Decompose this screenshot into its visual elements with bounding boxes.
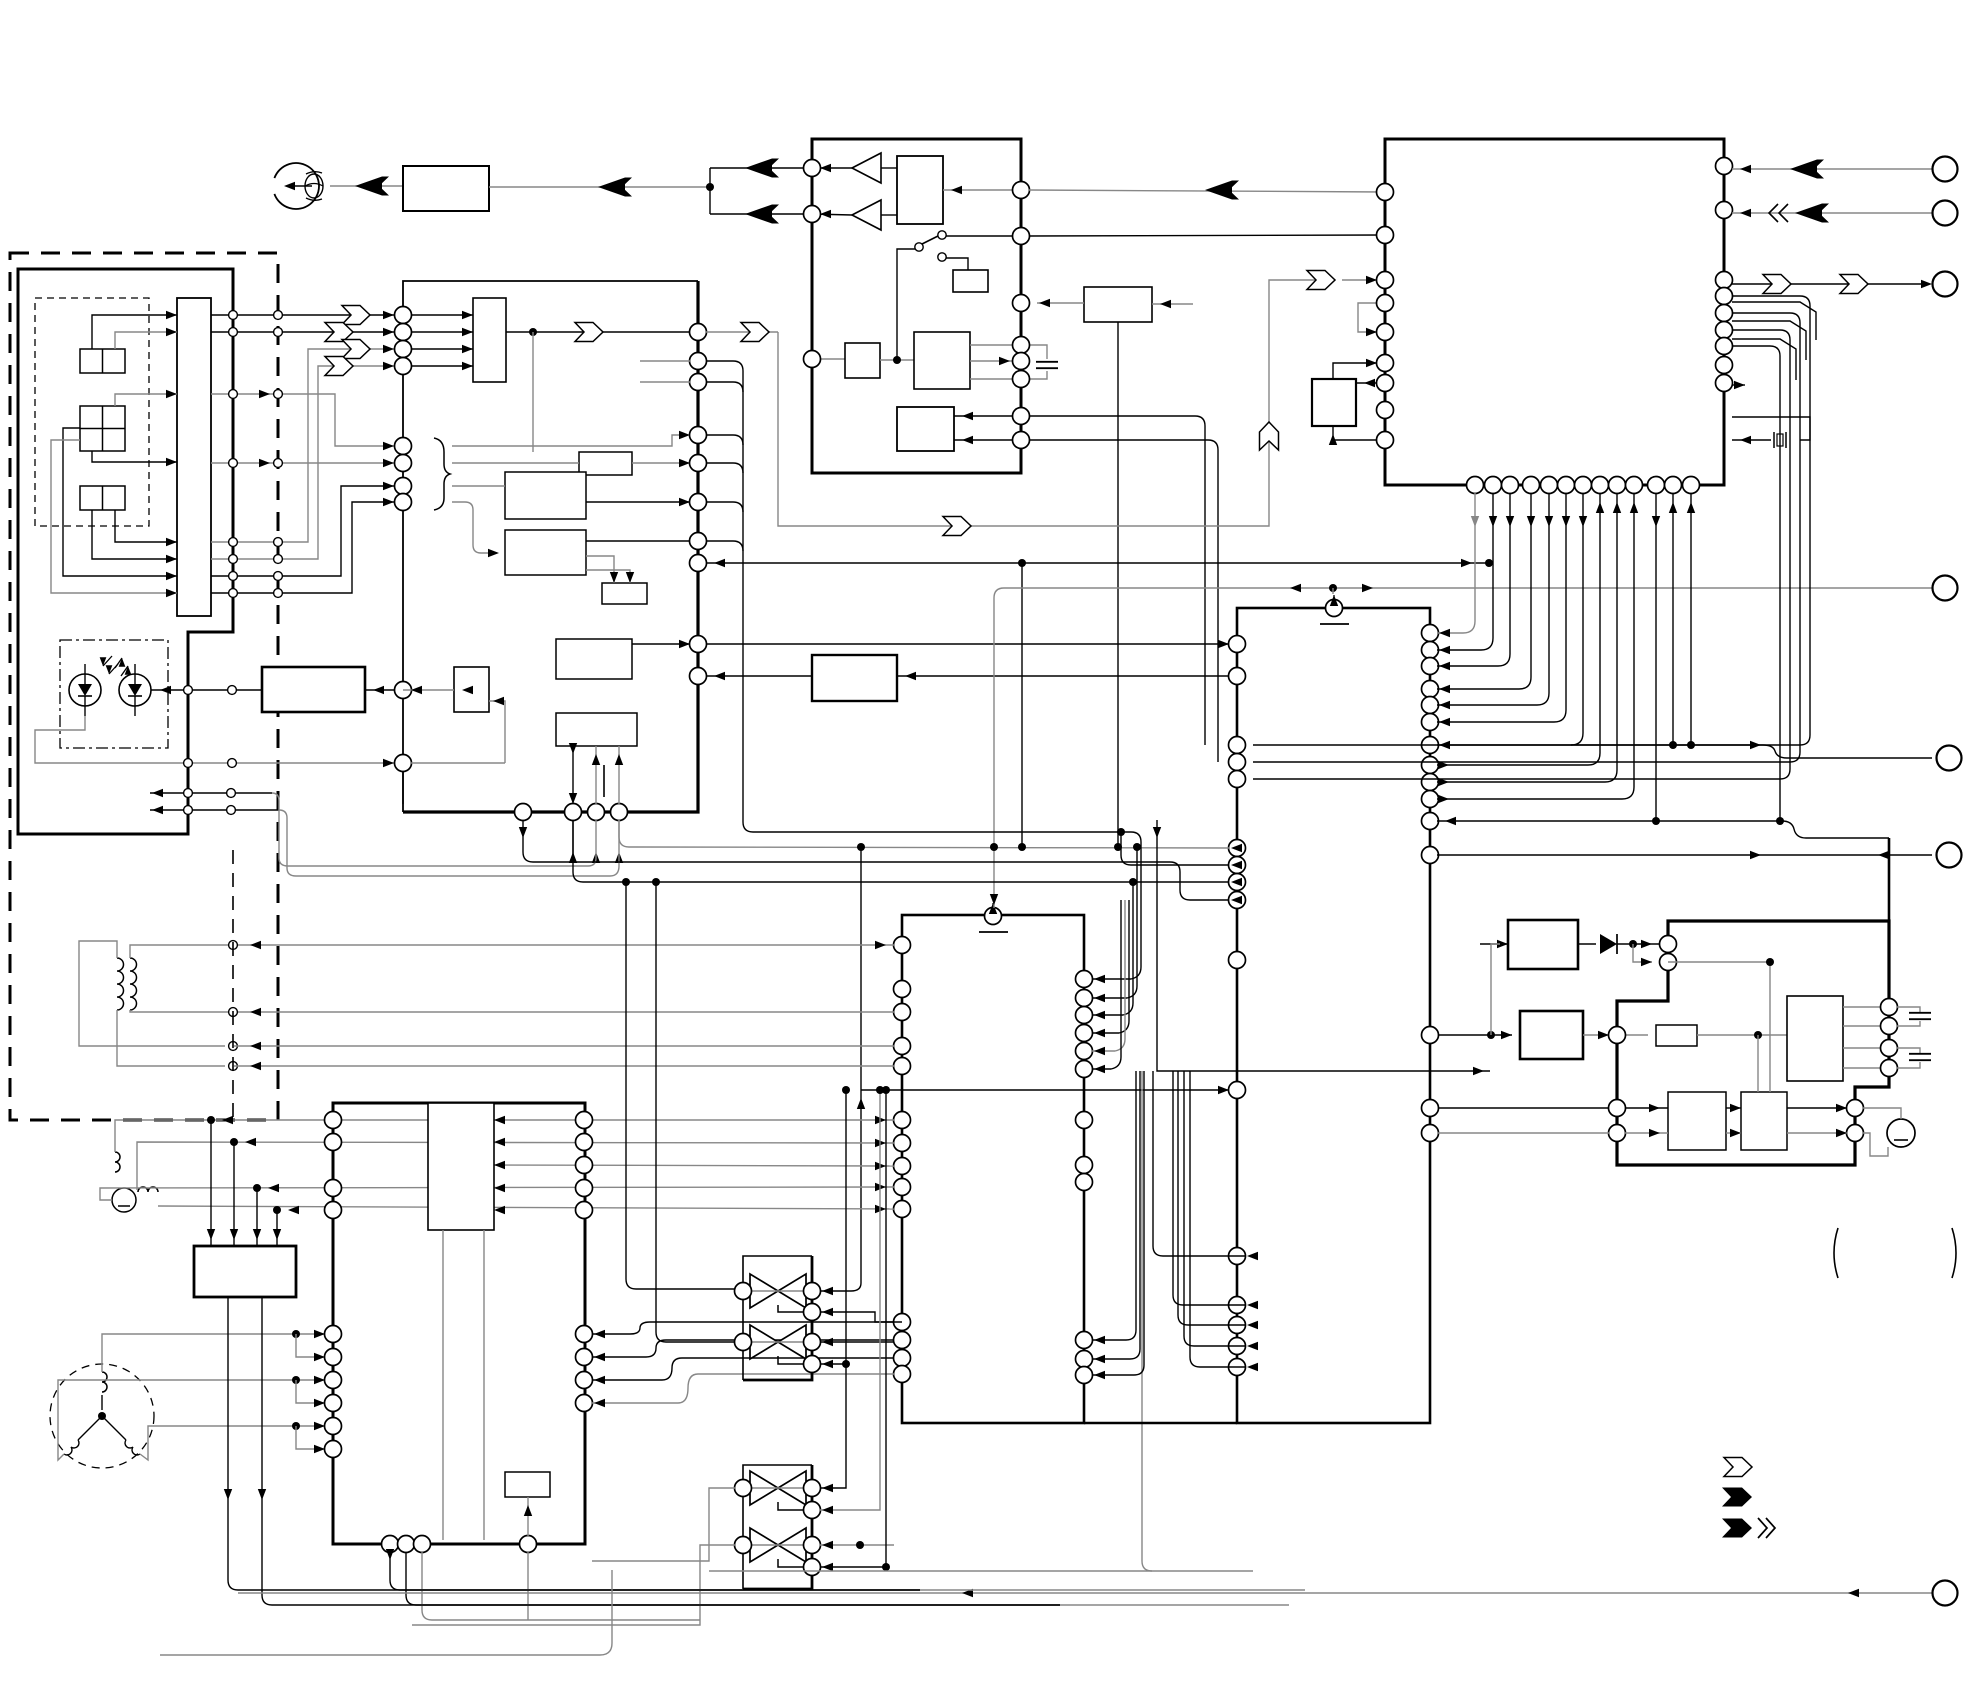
wire u2f bottom <box>1117 322 1119 847</box>
wire U2c to U2d <box>880 359 914 361</box>
wire t1 to b5 c <box>234 1045 894 1047</box>
wire b4 stub382 <box>640 381 690 383</box>
T1 wire b <box>117 1010 225 1066</box>
wire b4top in2 <box>411 331 473 333</box>
motor/capstan symbol top-left <box>274 163 319 209</box>
wire b5r 998 <box>1092 847 1137 998</box>
box U2c <box>845 343 880 378</box>
B4 left pins <box>395 307 412 324</box>
wire b5 lr1 <box>1092 1071 1140 1359</box>
wire b5b6 bottom link <box>1084 1422 1237 1425</box>
wire U1 busy out <box>1732 283 1926 285</box>
switch SW1 <box>915 243 923 251</box>
loading motor choke <box>115 1152 120 1172</box>
wire b7 bot1 <box>390 1552 920 1590</box>
wire motor to box B1 <box>330 185 403 187</box>
wire tr2 in3 <box>820 1544 894 1546</box>
T1 wire c <box>130 945 242 958</box>
wire r2 out <box>1583 1034 1648 1036</box>
IC B6 (motor driver) <box>1237 608 1430 1423</box>
wire b7 bot3 <box>422 1552 700 1620</box>
B7 bottom pins <box>382 1536 399 1553</box>
triac A <box>750 1274 778 1308</box>
transformer T1 secondary <box>130 958 137 1010</box>
b8 in arrows <box>210 1120 212 1246</box>
wire b7a <box>527 1497 529 1536</box>
outline chevron busy2 <box>1840 275 1868 294</box>
buffer amp A2 <box>852 200 881 230</box>
triac enclosure <box>743 1465 812 1589</box>
wire bottom 1655 <box>412 1570 612 1655</box>
black chevron U1-U2 <box>1205 181 1232 200</box>
wire L3 to terminal <box>1437 854 1932 856</box>
box B7i1 <box>428 1103 494 1230</box>
B6 top pin <box>1326 600 1343 617</box>
B7 right pins <box>576 1112 593 1129</box>
wire A1 input <box>881 167 897 169</box>
triac pins R <box>804 1283 821 1300</box>
wire U1a bottom <box>1333 426 1385 440</box>
wire b4top drop <box>532 332 534 452</box>
wire rail 1188 <box>100 1187 894 1200</box>
triac pins L <box>735 1480 752 1497</box>
wire U1 to U2 (data) <box>1029 190 1385 192</box>
wire LD1 return <box>35 716 85 763</box>
wire rail 1210 <box>158 1206 894 1209</box>
wire b4 bottom stub <box>402 771 404 804</box>
chevron sens2 <box>943 517 971 536</box>
arrow bp 1475 <box>1471 516 1479 527</box>
wire b4 hook bus <box>706 361 753 832</box>
wire b8 out2 <box>262 1297 1060 1605</box>
wire b7a bot <box>527 1552 529 1620</box>
wire b5b7 2 <box>592 1340 894 1357</box>
wire 1090 branch <box>860 847 862 1283</box>
wire rfout 576 <box>211 486 394 576</box>
wire 1071 line <box>1157 820 1490 1071</box>
arrow bp 1549 <box>1545 516 1553 527</box>
box B4f (focus) <box>454 667 489 712</box>
wire bp 1691 <box>1690 493 1692 745</box>
wire 900 line <box>523 820 1229 900</box>
wire b5 lr0 <box>1092 1071 1136 1340</box>
junction node <box>706 183 714 191</box>
terminal CN1-3 <box>1933 272 1958 297</box>
inner dashed box (photodiode array) <box>35 298 149 526</box>
wire b5b7 4 <box>592 1374 894 1403</box>
chevron rf1 <box>342 306 370 325</box>
wire rail 1120 <box>115 1120 894 1152</box>
box B4top (RF eq) <box>473 298 506 382</box>
wire b5 lr2 <box>1092 1071 1144 1375</box>
box B4g <box>602 583 647 604</box>
wire b6 ll2 <box>1178 1071 1245 1325</box>
wire A2 to pin <box>812 214 852 215</box>
wire b6 ll4 <box>1190 1071 1245 1367</box>
box B4h (LPF) <box>812 655 897 701</box>
spindle motor M3 <box>50 1364 154 1468</box>
wire 865 stub <box>1121 832 1229 865</box>
wire rfout 559 <box>211 366 394 559</box>
wire rfout 593 <box>211 502 394 593</box>
wire L1 to terminal <box>1571 744 1763 746</box>
wire riser 1142 <box>1142 1071 1152 1571</box>
wire r3 vert2 <box>1668 962 1770 1092</box>
wire U1 to terminal 2 <box>1732 212 1932 214</box>
triac A gate <box>778 1502 804 1510</box>
wire sens chevron into U1 <box>1342 279 1385 281</box>
buffer amp A1 <box>852 153 881 183</box>
wire rfout 463 <box>211 462 394 464</box>
IC B5 (driver) <box>902 915 1084 1423</box>
box R3c <box>1741 1092 1787 1150</box>
wire busout2 <box>1437 493 1634 799</box>
triac A <box>750 1471 778 1505</box>
cap right 1 <box>1897 1007 1920 1012</box>
wire gray left drop <box>152 1490 160 1655</box>
wire b5r 1051 <box>1092 900 1125 1051</box>
black chevron upper <box>745 159 772 178</box>
wire tr1 in2 <box>820 1312 902 1322</box>
wire r3f-r3c 2 <box>1726 1132 1741 1134</box>
light arrows <box>100 657 107 666</box>
wire busline4 <box>1437 493 1549 705</box>
wire b7i1 down2 <box>483 1230 485 1540</box>
wire pdB1 <box>115 394 177 406</box>
wire r3c out2 <box>1787 1132 1847 1134</box>
wire b4c out1 <box>586 540 690 542</box>
R3 right pins low <box>1847 1100 1864 1117</box>
wire U1 p339 bend <box>1732 339 1796 380</box>
wire 882 line <box>573 820 1229 882</box>
wire busline5 <box>1437 493 1566 722</box>
U1 left pins <box>1377 184 1394 201</box>
triac wire A <box>750 1487 752 1489</box>
triac pins L <box>735 1283 752 1300</box>
wire m2 b <box>1863 1133 1888 1156</box>
wire b4d out <box>632 643 690 645</box>
wire U2d out1 <box>970 344 1013 346</box>
wire vref gray line <box>994 588 1932 908</box>
wire pdB-left <box>63 428 177 576</box>
B4 right pins <box>690 324 707 341</box>
wire switch common down <box>897 249 915 360</box>
chevron sens3 <box>1307 271 1335 290</box>
wire tr1 in4 <box>845 1090 847 1440</box>
wire u2 p416 right <box>1029 416 1205 745</box>
box B8 (power driver) <box>194 1246 296 1297</box>
double chevron marks <box>1769 204 1778 222</box>
arrow bp 1510 <box>1506 516 1514 527</box>
terminal mid1 <box>1937 746 1962 771</box>
triac wire B <box>750 1341 806 1343</box>
wire rfout 332 <box>211 331 394 333</box>
APC box <box>262 667 365 712</box>
wire b4top out <box>506 331 690 333</box>
terminal CN1-2 <box>1933 201 1958 226</box>
wire monitor out <box>60 762 395 764</box>
wire switch to pin <box>946 235 1021 237</box>
wire brace4 <box>452 502 497 553</box>
IC B4 (servo signal processor) <box>403 281 698 812</box>
wire busline1 <box>1437 493 1493 650</box>
wire pdC1 <box>115 510 177 542</box>
wire r3f-r3c 1 <box>1726 1107 1741 1109</box>
motor M2 <box>1887 1119 1915 1147</box>
wire b6 ll3 <box>1184 1071 1245 1346</box>
wire b4f in <box>403 689 454 691</box>
wire b4top in4 <box>411 365 473 367</box>
triac wire A <box>750 1290 752 1292</box>
wire pin to U2e in2 <box>954 439 1013 441</box>
terminal CN1-1 <box>1933 157 1958 182</box>
R3 pins left bottom <box>1609 1100 1626 1117</box>
wire U1a top <box>1333 363 1377 379</box>
wire mon <box>411 762 505 764</box>
wire tr2 in2 <box>820 1090 880 1510</box>
wire U2d out3 <box>970 378 1013 380</box>
wire busline3 <box>1437 493 1531 689</box>
wire brace3 <box>452 485 505 487</box>
chevron rf4 <box>325 357 353 376</box>
wire busline2 <box>1437 493 1510 666</box>
diode D1 <box>1578 943 1596 945</box>
wire b5r 1069 <box>1092 900 1121 1069</box>
triac wire B <box>750 1544 806 1546</box>
wire U2a input from pin <box>943 189 1021 191</box>
wire bottom long <box>238 1592 1932 1594</box>
B5 top pin <box>985 908 1002 925</box>
wire u2f out <box>1037 302 1084 304</box>
capacitor C1 <box>1029 345 1047 359</box>
T1 wire d <box>130 1010 242 1012</box>
arrow bp 1566 <box>1562 516 1570 527</box>
wire pdA2 <box>115 332 177 349</box>
black chevron on B1 wire <box>598 178 625 197</box>
triac pins R <box>804 1480 821 1497</box>
terminal vref <box>1933 576 1958 601</box>
deck parens <box>1834 1228 1838 1278</box>
wire tr1 in3 <box>820 1341 894 1343</box>
wire tr2 outB <box>412 1545 735 1625</box>
box B7a <box>505 1472 550 1497</box>
wire busout1 <box>1437 493 1617 782</box>
wire pdB2 <box>92 451 177 462</box>
wire tr2 in1 <box>820 1440 846 1488</box>
wire U1a right <box>1356 382 1385 384</box>
wire b6 ll0 <box>1153 1071 1245 1256</box>
wire rfout 542 <box>211 349 394 542</box>
photodiode segment pair A <box>80 349 125 373</box>
wire b7 bot2 <box>406 1552 1060 1605</box>
wire b5b7 1 <box>592 1322 894 1334</box>
wire r1 in <box>1480 943 1508 945</box>
box R3b <box>1787 996 1843 1081</box>
B6 left pins <box>1229 636 1246 653</box>
wire rfout 315 <box>211 314 394 316</box>
wire U1 p302 bend <box>1732 302 1816 340</box>
wire r3 vert1 <box>1757 1035 1759 1092</box>
box U2d <box>914 332 970 389</box>
wire bp 1656 <box>1655 493 1657 821</box>
IC U1 (system control) <box>1385 139 1724 485</box>
fd t1 <box>229 941 238 950</box>
solid pickup box outline <box>18 269 233 834</box>
wire u2 p440 right <box>1029 440 1218 762</box>
box B4c <box>505 530 586 575</box>
wire vc line black <box>706 562 1489 564</box>
wire bottom gray 2 <box>1060 1604 1289 1606</box>
wire L2 to R3 <box>1437 820 1782 822</box>
photodiode segment pair C <box>80 486 125 510</box>
wire b4top in1 <box>411 314 473 316</box>
chevron rf3 <box>342 340 370 359</box>
motor wire u tap <box>296 1334 325 1357</box>
box B1 (top-left) <box>403 166 489 211</box>
IC B7 <box>333 1103 585 1544</box>
wire r3f in1 <box>1438 1107 1609 1109</box>
wire sens path <box>706 331 778 333</box>
wire b4 stub361 <box>640 360 690 362</box>
wire r1 feed <box>1491 944 1500 1035</box>
power block R3 outline <box>1617 921 1889 1165</box>
wire busline0 <box>1437 493 1475 633</box>
U2 left pins <box>804 160 821 177</box>
triac enclosure <box>743 1256 812 1380</box>
dashed enclosure (pickup unit) <box>10 253 278 1120</box>
arrow bus up1 <box>569 852 577 863</box>
wire hook A <box>279 801 596 866</box>
wire U2d out2 <box>970 360 1013 362</box>
laser diode LD1 <box>69 674 101 706</box>
wire B1 to junction <box>489 186 710 188</box>
wire pdB-top <box>51 440 177 593</box>
B6 right pins <box>1422 625 1439 642</box>
wire U1 p321 bend <box>1732 321 1806 360</box>
box B4e wires <box>572 746 574 804</box>
chevron sens up <box>1260 422 1279 450</box>
wire tr2 in4 <box>820 1566 886 1568</box>
wire U1 to terminal 1 <box>1732 168 1932 170</box>
wire rail 1142 <box>137 1142 894 1190</box>
wire b4a out <box>632 462 690 464</box>
cap right 2 <box>1897 1048 1920 1053</box>
T1 wire a <box>79 941 225 1046</box>
wire pdA1 <box>92 315 177 349</box>
wire rail 1165 <box>494 1165 894 1166</box>
wire brace1 <box>452 435 682 446</box>
B7 left pins <box>325 1112 342 1129</box>
wire sens path 2 <box>778 280 1334 526</box>
motor wire v <box>58 1380 325 1460</box>
wire b5r 1033 <box>1092 900 1129 1033</box>
triac B gate <box>778 1356 804 1364</box>
box R3f <box>1668 1092 1726 1150</box>
B5 left pins <box>894 937 911 954</box>
wire b4-b6 1 <box>706 643 1229 645</box>
black chevron on motor wire <box>355 177 382 196</box>
U1 bottom pins <box>1467 477 1484 494</box>
box R2 <box>1520 1011 1583 1059</box>
B5 right pins <box>1076 971 1093 988</box>
box U2f (interface) <box>1084 287 1152 322</box>
motor wire w <box>140 1426 325 1460</box>
box B4e <box>556 713 637 746</box>
box U2b <box>953 270 988 292</box>
wire 832 hookbus line <box>753 831 1131 833</box>
arrow bp 1583 <box>1579 516 1587 527</box>
box B4b <box>505 472 586 519</box>
terminal mid2 <box>1937 843 1962 868</box>
wire APC to LD <box>151 689 262 691</box>
wire b6 ll1 <box>1173 1071 1245 1305</box>
wire t1 to b5 b <box>242 1011 894 1013</box>
box U1a <box>1312 379 1356 426</box>
U1 right pins <box>1716 158 1733 175</box>
wire A1 to pin <box>812 167 852 169</box>
wire to pin 1 of U2 <box>710 167 812 169</box>
wire busout0 <box>1437 493 1600 765</box>
RF matrix amp (tall box) <box>177 298 211 616</box>
photodiode quad B <box>80 406 125 451</box>
wire pdC2 <box>92 510 177 559</box>
wire bottom gray 1 <box>920 1589 1305 1591</box>
wire apc in <box>365 689 395 691</box>
wire tr1 outB <box>656 882 735 1342</box>
wire busline6 <box>1437 493 1583 745</box>
wire m2 a <box>1863 1108 1901 1119</box>
chevron rf2 <box>325 323 353 342</box>
wire b7i1 down1 <box>442 1230 444 1540</box>
wire hook return 1 <box>150 792 272 794</box>
box U2a <box>897 156 943 224</box>
motor wire w tap <box>296 1426 325 1449</box>
wire t1 to b5 d <box>234 1065 894 1067</box>
wire u1 right bends down <box>1253 296 1810 745</box>
terminal bottom <box>1933 1581 1958 1606</box>
U1 small bracket pins <box>1358 303 1385 332</box>
legend filled chevron 2 <box>1722 1519 1752 1538</box>
wire r3d out <box>1697 1034 1787 1036</box>
transformer T1 primary <box>117 958 124 1010</box>
wire u1 p302 to b6 <box>1815 747 1817 749</box>
R3 pins left top <box>1660 936 1677 953</box>
wire r3c out1 <box>1787 1107 1847 1109</box>
R3 right pins <box>1881 999 1898 1016</box>
wire pin to U2e in1 <box>954 415 1013 417</box>
legend outline chevron <box>1724 1458 1752 1477</box>
wire bottom 1571 <box>709 1570 1253 1572</box>
wire A2 input <box>881 214 897 216</box>
black chevron lower <box>745 205 772 224</box>
dash-dot LED box <box>60 640 168 748</box>
triac B <box>750 1528 778 1562</box>
wire b4g in <box>586 556 614 583</box>
wire b4-b6 2 <box>706 675 812 677</box>
arrow bus up2 <box>592 852 600 863</box>
legend filled chevron <box>1722 1488 1752 1507</box>
wire brace2 <box>452 462 579 464</box>
wire switch contact to box U2b <box>946 258 968 270</box>
wire hook B <box>287 818 619 876</box>
arrow bus up3 <box>615 852 623 863</box>
box R1 <box>1508 920 1578 969</box>
triac B <box>750 1325 778 1359</box>
outline chevron busy1 <box>1763 275 1791 294</box>
box B4d <box>556 639 632 679</box>
IC U2 (RF amp block) <box>812 139 1021 473</box>
box B4a <box>579 452 632 475</box>
